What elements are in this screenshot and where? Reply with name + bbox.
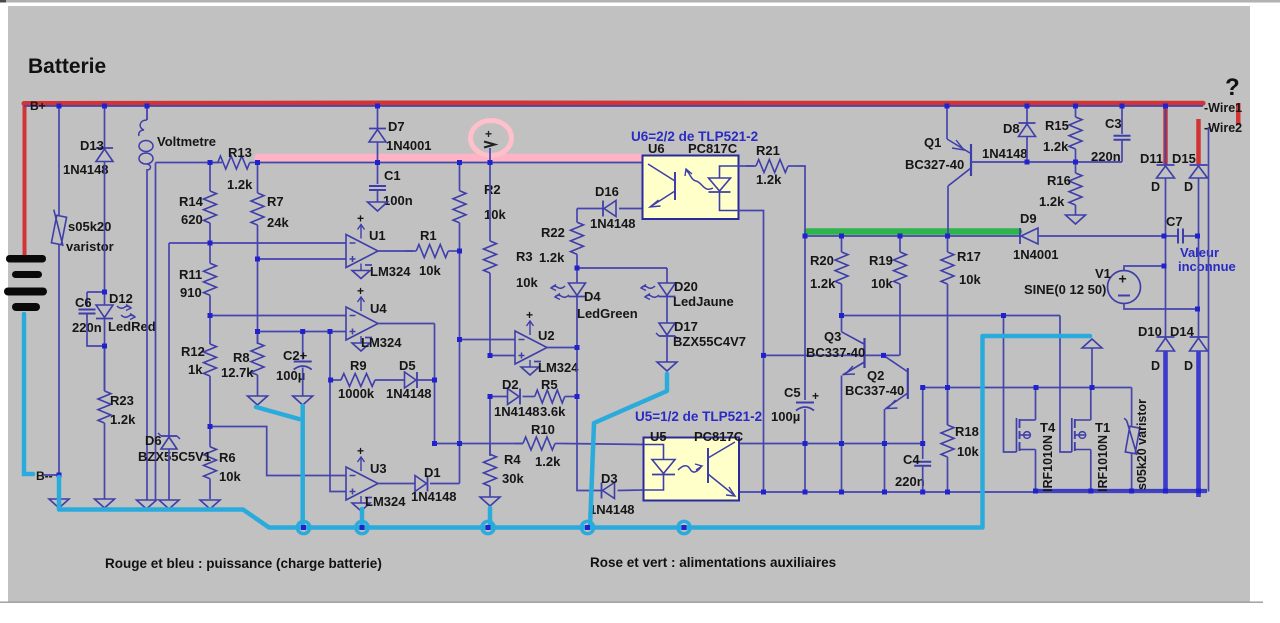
svg-text:D10: D10 [1138,324,1162,339]
svg-text:LM324: LM324 [370,264,411,279]
capacitor C3 [1114,136,1131,140]
label D17 [674,319,698,334]
svg-text:30k: 30k [502,471,524,486]
svg-text:R6: R6 [219,450,236,465]
junction dots top rail [57,104,1169,109]
label D10 model [1151,359,1160,373]
resistor R5 [523,377,578,419]
svg-text:100µ: 100µ [771,409,800,424]
svg-text:R18: R18 [955,424,979,439]
wire D7 top lead [377,106,379,129]
svg-text:10k: 10k [957,444,979,459]
label D16 [595,184,619,199]
svg-text:D17: D17 [674,319,698,334]
svg-text:1N4148: 1N4148 [589,502,635,517]
capacitor C2 polarized [294,362,312,370]
label C6 [75,295,92,310]
zener D17 [656,323,678,339]
wire varistor right leads [1131,388,1133,428]
wire C4 top lead [922,388,924,460]
label Valeur [1180,245,1219,260]
svg-text:1k: 1k [188,362,203,377]
svg-text:D16: D16 [595,184,619,199]
diode D5 [405,372,418,388]
svg-text:R16: R16 [1047,173,1071,188]
label D3 [601,471,618,486]
battery symbol bar 2 [12,271,42,278]
svg-text:D12: D12 [109,291,133,306]
label C4 value [895,474,925,489]
cyan marker right riser [983,336,1091,528]
wire node A row to U1 minus [169,242,346,244]
label D5 [399,358,416,373]
label C6 value [72,320,102,335]
wire R19 bottom lead [899,290,901,356]
wire D3 to U5 [618,489,644,492]
wire far right vertical [1208,127,1210,492]
svg-text:10k: 10k [484,207,506,222]
svg-text:U4: U4 [370,301,387,316]
junction dots bottom rail [761,489,1201,495]
label D13 value [63,162,109,177]
wire D4 top lead [576,268,578,283]
wire B+ top rail [24,105,1203,107]
svg-text:10k: 10k [516,275,538,290]
svg-text:LM324: LM324 [538,360,579,375]
blue marker D10 power lead [1163,351,1168,491]
svg-text:+: + [357,284,364,298]
wire R2 column lower [459,340,461,484]
capacitor C5 polarized [796,403,814,411]
junction dots Q1 region [1025,160,1201,312]
capacitor C6 [79,310,96,314]
svg-text:10k: 10k [219,469,241,484]
wire varistor column lower / B- node [58,245,60,499]
label Q2 [867,368,884,383]
LED D4 [551,283,586,300]
wire Q3 collector lead [841,290,843,332]
label D12 [109,291,133,306]
wire D16 to U6 [619,208,643,210]
svg-text:R23: R23 [110,393,134,408]
svg-text:D20: D20 [674,279,698,294]
svg-text:U2: U2 [538,328,555,343]
label C5 value [771,409,800,424]
label D5 value [386,386,432,401]
svg-text:PC817C: PC817C [688,141,738,156]
svg-text:T1: T1 [1095,420,1110,435]
svg-text:D2: D2 [502,377,519,392]
ground flag D17 [657,362,677,371]
wire Q1 collector lead [947,186,949,236]
wire U4plus to U3 plus column [330,332,346,492]
label varistor [66,239,114,254]
wire C3 bottom lead [1121,140,1123,162]
wire T1 source lead [1090,450,1092,493]
cyan marker D17 ground link [590,374,667,528]
label D10 [1138,324,1162,339]
wire D6 to ground [168,449,170,500]
label D11 [1140,151,1163,166]
svg-text:?: ? [1225,74,1240,101]
label D8 value [982,146,1028,161]
svg-text:Valeur: Valeur [1180,245,1219,260]
ground flag R6 [200,500,220,509]
label U6 part [688,141,738,156]
wire D20 top lead [666,268,668,283]
svg-text:220n: 220n [895,474,925,489]
pink marker auxiliary supply wire [258,154,642,162]
svg-text:Q3: Q3 [824,329,841,344]
wire R13 net left drop column [155,163,157,501]
label C4 [903,452,920,467]
svg-text:220n: 220n [1091,149,1121,164]
resistor R23 [98,346,136,499]
svg-text:D1: D1 [424,465,441,480]
wire R18 bottom lead [947,458,949,492]
resistor R6 [204,427,242,500]
wire D20 to D17 [666,297,668,323]
ground flag R23 column [95,499,115,508]
ground flag R8 [248,396,268,405]
wire Q3 emitter lead [841,376,843,493]
resistor R10 [515,422,563,469]
varistor s05k20 right [1118,418,1143,455]
svg-text:-Wire2: -Wire2 [1204,121,1242,135]
wire varistor right bottom [1131,453,1133,492]
resistor R21 [746,143,798,187]
resistor R20 [810,236,848,291]
diode D16 [603,201,616,217]
wire C7 to Wire2 node [1184,235,1198,237]
svg-text:LedJaune: LedJaune [673,294,734,309]
svg-text:R19: R19 [869,253,893,268]
label D14 model [1184,359,1193,373]
svg-text:C3: C3 [1105,116,1122,131]
label Q3 [824,329,841,344]
svg-text:1.2k: 1.2k [810,276,836,291]
label D15 [1172,151,1196,166]
svg-text:R3: R3 [516,249,533,264]
wire D15 to nodes [1198,178,1200,337]
label D11 model [1151,180,1160,194]
blue marker D14 power lead [1196,351,1201,497]
svg-text:R22: R22 [541,225,565,240]
resistor R2 [453,163,506,252]
wire voltmeter column [146,169,148,500]
svg-text:BC327-40: BC327-40 [905,157,964,172]
resistor R22 [539,209,584,269]
diode D8 [1019,123,1036,137]
svg-text:R10: R10 [531,422,555,437]
wire T1 gate column [1060,316,1072,453]
wire D2 row left [490,396,508,398]
svg-text:D14: D14 [1170,324,1195,339]
label D12 value [108,319,156,334]
junction dots lower right [803,385,1095,446]
mosfet T1 [1072,418,1110,492]
svg-text:T4: T4 [1040,420,1056,435]
wire V1 top lead [1124,266,1164,270]
svg-text:+: + [357,212,364,226]
wire right block row [923,387,1132,389]
svg-text:BC337-40: BC337-40 [806,345,865,360]
svg-text:+: + [812,389,819,403]
wire D6 column [168,243,170,436]
wire Q1 emitter lead [946,106,948,139]
svg-text:R20: R20 [810,253,834,268]
label D7 value [386,138,432,153]
svg-text:Batterie: Batterie [28,55,106,78]
wire D12 leads [104,292,106,305]
optocoupler U5 LED [644,445,676,491]
label D2 value [494,404,540,419]
optocoupler U5 box [644,438,740,501]
cyan marker ground bus [59,477,981,528]
red marker battery positive lead [23,103,27,257]
svg-text:D4: D4 [584,289,601,304]
svg-text:1N4148: 1N4148 [982,146,1028,161]
svg-text:s05k20 varistor: s05k20 varistor [1135,399,1149,490]
resistor R9 [331,358,405,401]
power flag inverted triangle [1082,339,1102,348]
svg-text:R21: R21 [756,143,780,158]
wire U2 output [547,347,577,349]
cyan marker battery negative lead [24,314,33,474]
label C5 plus [812,389,819,403]
svg-text:D3: D3 [601,471,618,486]
wire C6 bottom lead [87,314,105,346]
wire C5 bottom lead [804,409,806,492]
op-amp U3 [346,444,406,511]
svg-text:U3: U3 [370,461,387,476]
resistor R16 [1039,162,1082,215]
wire D5 to column [417,379,435,381]
label D20 value [673,294,734,309]
wire R10 row right to U5 [563,444,644,445]
battery symbol bar 4 [12,303,40,311]
wire bottom emitter rail [739,491,1207,493]
ground flag at B- column [49,499,69,508]
caption rouge et bleu [105,556,382,571]
wire C3 top lead [1121,106,1123,134]
svg-text:910: 910 [180,285,202,300]
label Wire2 [1204,121,1242,135]
svg-text:C2+: C2+ [283,348,308,363]
battery symbol bar 1 [6,255,46,263]
wire U2 minus row [460,339,516,341]
svg-text:R13: R13 [228,145,252,160]
svg-text:1.2k: 1.2k [110,412,136,427]
wire U2 plus row [490,355,515,357]
cyan marker C2 ground link [256,406,303,527]
svg-text:R15: R15 [1045,118,1069,133]
svg-text:3.6k: 3.6k [540,404,566,419]
svg-text:R12: R12 [181,344,205,359]
resistor R18 [941,388,979,460]
svg-text:10k: 10k [959,272,981,287]
svg-text:varistor: varistor [66,239,114,254]
voltage source V1 [1108,271,1141,304]
wire R3 to U2 plus node [489,290,491,356]
label C2 value [276,368,305,383]
svg-text:BZX55C5V1: BZX55C5V1 [138,449,211,464]
diode D10 [1157,337,1175,351]
svg-text:100µ: 100µ [276,368,305,383]
diode D13 [96,148,113,162]
wire probe stub [489,148,491,163]
red marker Wire2 / D15 branch [1196,119,1201,164]
label C3 [1105,116,1122,131]
svg-text:U5: U5 [650,429,667,444]
svg-text:1.2k: 1.2k [756,172,782,187]
red marker D11 branch [1163,104,1168,164]
svg-text:1.2k: 1.2k [535,454,561,469]
label D15 model [1184,180,1193,194]
svg-text:R5: R5 [541,377,558,392]
wire C4 bottom lead [922,466,924,492]
optocoupler U5 phototransistor [708,442,735,496]
capacitor C1 [369,186,386,190]
wire C1 bottom lead [377,191,379,203]
red marker Wire1 tick [1236,103,1241,125]
svg-text:V1: V1 [1095,266,1111,281]
svg-text:D7: D7 [388,119,405,134]
label D1 [424,465,441,480]
wire U2out to D2 node [576,348,578,397]
label D2 [502,377,519,392]
wire U4 minus row [210,315,346,317]
svg-text:LM324: LM324 [361,335,402,350]
optocoupler U6 LED [709,166,739,211]
diode D2 [508,389,521,405]
resistor R3 [484,163,539,291]
svg-text:C6: C6 [75,295,92,310]
svg-text:D: D [1151,180,1160,194]
svg-text:Voltmetre: Voltmetre [157,134,216,149]
optocoupler U6 light arrow [685,169,713,189]
svg-text:D: D [1184,359,1193,373]
label D6 value [138,449,211,464]
label U6 title [631,129,758,144]
transistor Q2 [884,355,908,409]
wire Q1 base row [971,161,1122,163]
svg-text:R11: R11 [179,267,202,282]
label V1 value [1024,282,1106,297]
svg-text:BC337-40: BC337-40 [845,383,904,398]
label B+ [30,99,46,113]
wire D4 to U2out node [576,297,578,348]
wire D9 to C7 row [1038,235,1177,237]
cyan marker U3 ground link [360,509,365,526]
title Batterie [28,55,106,78]
label D17 value [673,334,746,349]
label U5 title [635,409,762,424]
svg-text:620: 620 [181,212,203,227]
label inconnue [1178,259,1236,274]
wire D13 column to C6/D12 [104,162,106,292]
svg-text:1N4148: 1N4148 [494,404,540,419]
wire green aux row [805,235,1020,237]
label Voltmetre [157,134,216,149]
wire LED row [577,267,667,269]
svg-text:10k: 10k [419,263,441,278]
wire C5 top lead [804,236,806,400]
svg-text:1N4001: 1N4001 [1013,247,1059,262]
svg-text:LedGreen: LedGreen [577,306,638,321]
svg-text:SINE(0 12 50): SINE(0 12 50) [1024,282,1106,297]
wire U3 output [378,483,415,485]
diode D1 [415,476,428,492]
ground flag C2 [293,396,313,405]
label s05k20 varistor vertical [1135,399,1149,490]
probe annotation plus-arrow [484,127,495,148]
ground flag R16 [1066,215,1086,224]
wire C1 top lead [377,163,379,185]
label C5 [784,385,801,400]
battery symbol bar 3 [4,288,47,296]
label s05k20 [68,219,111,234]
svg-text:U6: U6 [648,141,665,156]
svg-text:R1: R1 [420,228,437,243]
wire D11 to C7 node [1165,178,1167,266]
wire D7 bottom lead [377,143,379,163]
optocoupler U6 box [643,156,739,220]
resistor R15 [1043,106,1082,162]
capacitor C4 [914,462,931,466]
label Q3 part [806,345,865,360]
diode D7 [369,129,386,143]
resistor R8 [221,332,264,397]
svg-text:B--: B-- [36,469,53,483]
svg-text:B+: B+ [30,99,46,113]
pink marker circle highlight on node [471,121,512,156]
resistor R1 [405,228,460,278]
wire U4 output column [434,324,436,444]
svg-text:R9: R9 [350,358,367,373]
diode D9 [1020,228,1038,244]
svg-text:1.2k: 1.2k [1039,194,1065,209]
wire U4 plus row [258,331,347,333]
svg-text:R14: R14 [179,194,204,209]
wire T4 drain lead [1035,388,1037,421]
label D16 value [590,216,636,231]
svg-text:D8: D8 [1003,121,1020,136]
svg-text:U1: U1 [369,228,386,243]
wire C2 bottom lead [302,368,304,397]
resistor R13 [210,145,258,192]
svg-text:D11: D11 [1140,151,1163,166]
svg-text:+: + [526,308,533,322]
svg-text:PC817C: PC817C [694,429,744,444]
optocoupler U6 phototransistor [648,164,675,207]
cyan marker R4 ground link [488,508,493,526]
label Q2 part [845,383,904,398]
wire U1 plus row [258,258,347,260]
svg-text:12.7k: 12.7k [221,365,254,380]
wire R4 top lead [489,397,491,457]
label Q1 [924,135,941,150]
cyan junction rings on ground bus [297,521,690,533]
label Q1 part [905,157,964,172]
optocoupler U5 light arrow [678,464,702,472]
label C2 [283,348,308,363]
red marker B+ power rail [24,101,1203,107]
ground flag R4 [480,497,500,506]
svg-text:inconnue: inconnue [1178,259,1236,274]
resistor R4 [484,444,525,498]
svg-text:LedRed: LedRed [108,319,156,334]
